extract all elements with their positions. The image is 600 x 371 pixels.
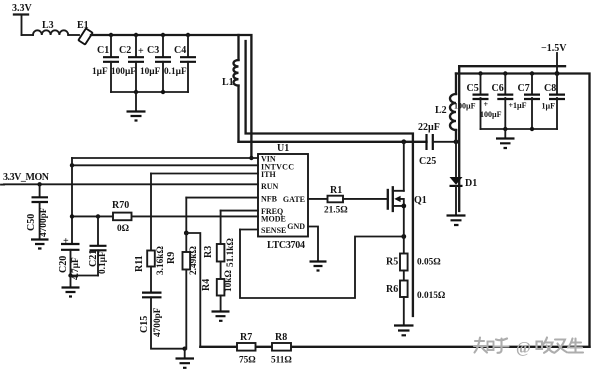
svg-text:D1: D1: [465, 178, 477, 189]
junction dot NFB node: [184, 231, 189, 236]
resistor R7: [237, 332, 256, 366]
op-amp U1 box: [258, 143, 308, 251]
svg-text:21.5Ω: 21.5Ω: [324, 206, 348, 216]
svg-text:R7: R7: [240, 332, 252, 343]
svg-text:C4: C4: [174, 45, 186, 56]
resistor R9: [166, 233, 199, 349]
wire capacitor bottom rail: [111, 91, 188, 93]
junction dot bottom rail C2: [134, 90, 138, 94]
svg-text:R5: R5: [386, 257, 398, 268]
svg-text:2.49kΩ: 2.49kΩ: [189, 246, 199, 275]
svg-text:SENSE: SENSE: [261, 226, 286, 235]
svg-text:+: +: [138, 46, 144, 57]
junction dot L2 bottom: [454, 139, 459, 144]
svg-text:3.16kΩ: 3.16kΩ: [156, 246, 166, 275]
junction dot Q1 source: [401, 204, 406, 209]
svg-text:0.015Ω: 0.015Ω: [417, 291, 446, 301]
inductor L1: [222, 35, 239, 142]
junction dot Q1 drain: [401, 139, 406, 144]
svg-text:LTC3704: LTC3704: [267, 240, 305, 251]
svg-text:+: +: [484, 100, 489, 109]
junction dot C20 bottom: [68, 273, 72, 277]
ground C20/C21: [62, 276, 80, 297]
power label 3.3V: [12, 3, 33, 35]
wire feedback bottom: [200, 346, 589, 348]
junction dot INTVCC: [70, 163, 74, 167]
wire INTVCC pin: [72, 164, 258, 166]
junction dot VIN: [249, 156, 253, 160]
junction dot bottom C6: [503, 127, 507, 131]
junction dot -1.5V: [555, 71, 560, 76]
wire C25 to L2: [433, 141, 456, 143]
capacitor C2: [111, 35, 144, 92]
capacitor C20: [58, 236, 81, 280]
svg-text:3.3V: 3.3V: [12, 3, 33, 14]
svg-text:NFB: NFB: [261, 195, 278, 204]
svg-text:100µF: 100µF: [111, 67, 136, 77]
junction dot C4 rail: [186, 33, 190, 37]
junction dot C5: [478, 71, 482, 75]
junction dot C6: [503, 71, 507, 75]
diode D1: [450, 142, 478, 215]
inductor L2: [435, 74, 456, 142]
wire switch node: [239, 141, 427, 143]
svg-text:C20: C20: [58, 256, 69, 273]
wire FREQ pin: [221, 210, 258, 212]
svg-text:R11: R11: [134, 255, 145, 272]
ground U1 GND: [310, 262, 327, 271]
resistor R1: [308, 185, 388, 216]
watermark: [474, 338, 583, 353]
resistor R8: [271, 332, 292, 366]
svg-text:−1.5V: −1.5V: [541, 43, 567, 54]
svg-text:1µF: 1µF: [92, 67, 108, 77]
resistor R4: [201, 270, 234, 311]
svg-text:10µF: 10µF: [140, 67, 161, 77]
wire GND pin: [308, 227, 318, 262]
svg-text:10kΩ: 10kΩ: [224, 270, 234, 292]
svg-text:R3: R3: [203, 246, 214, 258]
svg-text:0.1µF: 0.1µF: [98, 251, 108, 274]
junction dot C7: [530, 71, 534, 75]
junction dot C21 top: [96, 214, 100, 218]
svg-text:R1: R1: [330, 185, 342, 196]
wire NFB pin: [186, 197, 258, 199]
wire NFB node link to divider: [186, 233, 200, 347]
svg-text:C6: C6: [492, 83, 504, 94]
svg-text:0.1µF: 0.1µF: [164, 67, 187, 77]
inductor L3: [33, 20, 68, 35]
junction dot sense at Q1 source: [401, 234, 406, 239]
ground R6: [394, 326, 414, 336]
svg-text:1µF: 1µF: [542, 101, 556, 110]
svg-text:C2: C2: [119, 45, 131, 56]
capacitor C50: [26, 184, 49, 239]
ground C15/R9: [176, 349, 195, 368]
transistor Q1: [388, 142, 427, 254]
svg-text:L3: L3: [42, 20, 54, 31]
svg-text:R8: R8: [275, 332, 287, 343]
wire ITH pin: [151, 173, 258, 175]
wire SENSE pin: [240, 229, 258, 231]
svg-text:+: +: [63, 236, 69, 247]
junction dot bottom C7: [530, 127, 534, 131]
ground output caps: [496, 129, 515, 148]
svg-text:Q1: Q1: [414, 195, 427, 206]
wire L1 core line: [246, 41, 413, 316]
svg-text:4700pF: 4700pF: [39, 207, 49, 237]
power label -1.5V: [541, 43, 567, 74]
ground R4: [212, 312, 230, 321]
svg-text:C3: C3: [147, 45, 159, 56]
ground input caps: [127, 92, 146, 121]
svg-text:C50: C50: [26, 214, 37, 231]
resistor R6: [386, 281, 446, 326]
svg-text:L2: L2: [435, 105, 447, 116]
svg-text:4.7µF: 4.7µF: [71, 257, 81, 280]
svg-text:3.3V_MON: 3.3V_MON: [3, 172, 50, 183]
capacitor C5: [454, 74, 489, 130]
wire NFB down: [185, 198, 187, 233]
capacitor C15: [139, 293, 185, 349]
svg-text:75Ω: 75Ω: [239, 356, 256, 366]
svg-text:4700pF: 4700pF: [153, 307, 163, 337]
junction dot C50: [37, 182, 41, 186]
capacitor C1: [92, 35, 119, 92]
wire L2 core line: [458, 66, 460, 211]
svg-text:C25: C25: [419, 156, 436, 167]
capacitor C3: [140, 35, 171, 92]
resistor R70: [112, 200, 132, 234]
svg-text:U1: U1: [277, 143, 289, 154]
svg-text:R70: R70: [112, 200, 129, 211]
junction dot C3 rail: [161, 33, 165, 37]
svg-text:511Ω: 511Ω: [271, 356, 292, 366]
capacitor C8: [542, 74, 566, 130]
svg-text:@: @: [516, 340, 531, 357]
svg-text:ITH: ITH: [261, 170, 276, 179]
svg-text:51.1kΩ: 51.1kΩ: [226, 238, 236, 267]
junction dot R9 bottom: [183, 347, 187, 351]
wire VIN down to C20: [71, 158, 73, 244]
ground D1: [447, 216, 466, 226]
resistor R5: [386, 254, 441, 281]
svg-text:C1: C1: [97, 45, 109, 56]
svg-text:R9: R9: [166, 252, 177, 264]
resistor R3: [203, 211, 236, 279]
wire MODE pin (R70 wire): [72, 215, 113, 217]
junction dot R70 left: [70, 214, 74, 218]
svg-text:RUN: RUN: [261, 182, 279, 191]
wire upper output line: [459, 65, 565, 67]
capacitor C21: [88, 216, 108, 275]
svg-text:C7: C7: [518, 83, 530, 94]
wire L3 to E1: [68, 34, 79, 36]
capacitor C6: [480, 74, 513, 130]
svg-text:0.05Ω: 0.05Ω: [417, 258, 441, 268]
svg-text:L1: L1: [222, 77, 234, 88]
wire VIN pin: [72, 157, 258, 159]
resistor R11: [134, 174, 166, 293]
svg-text:100µF: 100µF: [480, 110, 502, 119]
ground C50: [31, 240, 49, 249]
capacitor C7: [509, 74, 541, 130]
svg-text:MODE: MODE: [261, 215, 286, 224]
svg-text:GATE: GATE: [283, 195, 305, 204]
junction dot C2 rail: [134, 33, 138, 37]
wire from 3.3V to L3: [22, 34, 34, 36]
wire SENSE route: [240, 230, 404, 299]
junction dot bottom rail C3: [161, 90, 165, 94]
wire RUN pin (3.3V_MON): [1, 172, 258, 185]
capacitor C4: [164, 35, 196, 92]
junction dot C1 rail: [109, 33, 113, 37]
svg-text:C5: C5: [467, 83, 479, 94]
wire output rail: [456, 74, 590, 347]
svg-text:+1µF: +1µF: [509, 101, 527, 110]
svg-text:22µF: 22µF: [418, 122, 440, 133]
svg-text:C8: C8: [544, 83, 556, 94]
capacitor C25: [418, 122, 440, 167]
svg-text:GND: GND: [287, 222, 305, 231]
wire output caps bottom rail: [481, 128, 558, 130]
ferrite bead E1: [77, 20, 93, 45]
svg-text:C15: C15: [139, 316, 150, 333]
wire input rail: [91, 35, 251, 158]
svg-text:R4: R4: [201, 279, 212, 291]
svg-text:0Ω: 0Ω: [117, 224, 130, 234]
svg-text:100µF: 100µF: [454, 101, 476, 110]
svg-text:R6: R6: [386, 284, 398, 295]
wire C21 bottom to C20: [71, 275, 99, 277]
